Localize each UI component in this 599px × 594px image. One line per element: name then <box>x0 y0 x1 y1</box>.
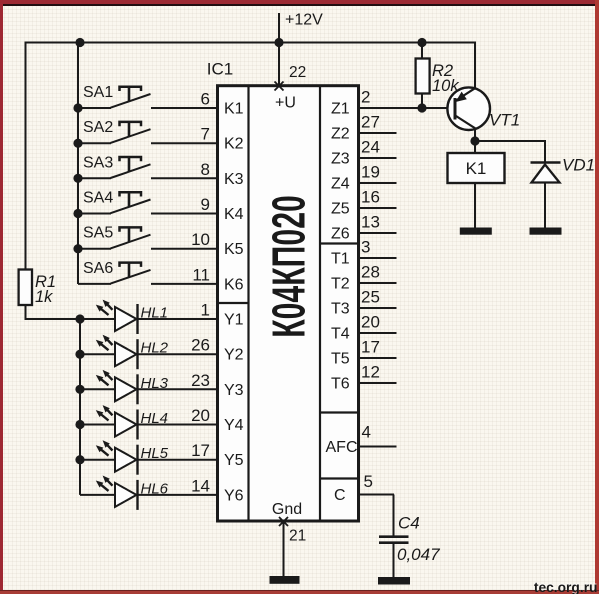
LED bus wire <box>79 319 81 495</box>
ground symbol under C4 <box>378 577 410 585</box>
svg-text:8: 8 <box>201 160 210 179</box>
svg-text:T6: T6 <box>331 376 350 393</box>
svg-text:C4: C4 <box>398 514 420 533</box>
pin 21 Gnd pin <box>272 501 306 576</box>
svg-text:HL6: HL6 <box>141 480 169 497</box>
LED HL5 <box>75 440 217 474</box>
IC pin Z2 / pin 27 <box>331 113 397 143</box>
svg-text:6: 6 <box>201 90 210 109</box>
svg-text:Y5: Y5 <box>224 452 244 469</box>
switch SA1 <box>73 84 217 113</box>
junction VT1 collector node <box>470 136 479 145</box>
IC pin T1 / pin 3 <box>331 238 397 268</box>
IC pin AFC / pin 4 <box>326 423 397 457</box>
switch bus wire <box>77 43 79 285</box>
IC pin T4 / pin 20 <box>331 313 397 343</box>
junction +12V on bus <box>274 38 283 47</box>
svg-text:HL4: HL4 <box>141 410 169 427</box>
junction switch bus on top bus <box>75 38 84 47</box>
svg-text:Y3: Y3 <box>224 382 244 399</box>
IC pin T5 / pin 17 <box>331 338 397 368</box>
svg-text:VT1: VT1 <box>489 111 520 130</box>
svg-text:HL1: HL1 <box>141 305 169 322</box>
svg-text:27: 27 <box>361 113 380 132</box>
svg-text:Z3: Z3 <box>331 151 350 168</box>
svg-text:13: 13 <box>361 213 380 232</box>
svg-text:Z4: Z4 <box>331 176 350 193</box>
svg-text:12: 12 <box>361 363 380 382</box>
svg-text:26: 26 <box>191 336 210 355</box>
svg-text:3: 3 <box>361 238 370 257</box>
diode VD1 <box>531 156 596 228</box>
svg-text:HL5: HL5 <box>141 445 169 462</box>
svg-text:VD1: VD1 <box>562 156 595 175</box>
LED HL1 <box>75 300 217 334</box>
svg-text:0,047: 0,047 <box>397 545 440 564</box>
pin 22 +U power pin <box>275 43 307 112</box>
IC pin Z1 / pin 2 wire to VT1 base <box>331 88 454 118</box>
junction R2 top on bus <box>417 38 426 47</box>
wire +12V top bus <box>26 42 477 44</box>
IC1 chip body К04КП020 <box>218 86 359 521</box>
IC pin T6 / pin 12 <box>331 363 397 393</box>
LED HL2 <box>75 335 217 369</box>
svg-text:7: 7 <box>201 125 210 144</box>
svg-text:tec.org.ru: tec.org.ru <box>534 580 598 594</box>
junction R2 bottom on base wire <box>417 103 426 112</box>
switch SA5 <box>73 225 217 254</box>
IC1 label <box>207 60 233 79</box>
IC pin C / pin 5 <box>334 472 394 504</box>
svg-text:IC1: IC1 <box>207 60 233 79</box>
svg-text:HL2: HL2 <box>141 340 169 357</box>
IC pin T2 / pin 28 <box>331 263 397 293</box>
ground symbol under IC1 <box>270 576 300 584</box>
ground symbol under K1 <box>460 228 492 235</box>
watermark tec.org.ru <box>534 580 598 594</box>
wire collector node to VD1 <box>475 140 545 162</box>
switch SA4 <box>73 190 217 219</box>
svg-text:1k: 1k <box>35 288 53 306</box>
IC pin Z6 / pin 13 <box>331 213 397 243</box>
wire bus corner down to VT1 emitter <box>474 42 476 88</box>
relay K1 <box>448 141 505 228</box>
svg-text:20: 20 <box>191 406 210 425</box>
switch SA6 <box>78 260 218 285</box>
svg-text:Z6: Z6 <box>331 226 350 243</box>
wire pin 5 to C4 <box>393 495 395 536</box>
svg-text:K4: K4 <box>224 206 244 223</box>
svg-text:T2: T2 <box>331 276 350 293</box>
svg-text:22: 22 <box>289 64 306 81</box>
svg-text:K1: K1 <box>224 101 244 118</box>
IC pin Z3 / pin 24 <box>331 138 397 168</box>
svg-text:T5: T5 <box>331 351 350 368</box>
svg-text:Z2: Z2 <box>331 126 350 143</box>
svg-text:SA2: SA2 <box>83 119 113 136</box>
svg-text:Y2: Y2 <box>224 347 244 364</box>
svg-text:17: 17 <box>191 441 210 460</box>
+12V supply terminal <box>279 12 323 43</box>
svg-text:SA6: SA6 <box>83 260 113 277</box>
LED HL6 <box>80 476 218 510</box>
svg-text:19: 19 <box>361 163 380 182</box>
svg-text:Y1: Y1 <box>224 312 244 329</box>
svg-text:K5: K5 <box>224 241 244 258</box>
svg-text:К04КП020: К04КП020 <box>264 195 315 338</box>
svg-text:+U: +U <box>275 95 296 112</box>
svg-text:T1: T1 <box>331 251 350 268</box>
svg-text:11: 11 <box>192 265 210 284</box>
IC pin Z5 / pin 16 <box>331 188 397 218</box>
svg-text:4: 4 <box>362 423 371 442</box>
ground symbol under VD1 <box>530 228 562 235</box>
svg-text:K2: K2 <box>224 136 244 153</box>
transistor VT1 <box>447 87 520 141</box>
svg-text:Z5: Z5 <box>331 201 350 218</box>
switch SA3 <box>73 154 217 183</box>
svg-text:24: 24 <box>361 138 380 157</box>
svg-text:C: C <box>334 487 346 504</box>
svg-text:K6: K6 <box>224 276 244 293</box>
svg-text:SA5: SA5 <box>83 225 113 242</box>
svg-text:K3: K3 <box>224 171 244 188</box>
LED HL3 <box>75 370 217 404</box>
IC pin Z4 / pin 19 <box>331 163 397 193</box>
IC pin labels K1-K6 <box>224 101 244 294</box>
svg-text:+12V: +12V <box>285 12 323 29</box>
svg-text:16: 16 <box>361 188 380 207</box>
wire from bus down to R1 <box>25 42 27 270</box>
svg-text:SA4: SA4 <box>83 190 113 207</box>
resistor R1 <box>19 270 56 307</box>
svg-text:10: 10 <box>191 230 210 249</box>
svg-text:T3: T3 <box>331 301 350 318</box>
svg-text:HL3: HL3 <box>141 375 169 392</box>
IC pin T3 / pin 25 <box>331 288 397 318</box>
resistor R2 <box>416 43 460 109</box>
switch SA2 <box>73 119 217 148</box>
svg-text:Gnd: Gnd <box>272 501 302 518</box>
svg-text:Y6: Y6 <box>224 487 244 504</box>
svg-text:Y4: Y4 <box>224 417 244 434</box>
capacitor C4 <box>379 514 440 578</box>
svg-text:2: 2 <box>361 88 370 107</box>
svg-text:21: 21 <box>289 528 306 545</box>
svg-text:28: 28 <box>361 263 380 282</box>
wire R1 to LED bus <box>25 305 81 319</box>
svg-text:20: 20 <box>361 313 380 332</box>
svg-text:14: 14 <box>191 476 210 495</box>
svg-text:T4: T4 <box>331 326 350 343</box>
IC pin labels Y1-Y6 <box>224 312 244 505</box>
svg-text:AFC: AFC <box>326 439 358 456</box>
svg-text:25: 25 <box>361 288 380 307</box>
svg-text:9: 9 <box>201 195 210 214</box>
svg-text:1: 1 <box>201 301 210 320</box>
svg-text:17: 17 <box>361 338 380 357</box>
LED HL4 <box>75 405 217 439</box>
svg-text:K1: K1 <box>466 159 487 178</box>
svg-text:SA3: SA3 <box>83 154 113 171</box>
svg-text:23: 23 <box>191 371 210 390</box>
svg-text:Z1: Z1 <box>331 101 350 118</box>
svg-text:5: 5 <box>364 472 373 491</box>
svg-text:SA1: SA1 <box>83 84 113 101</box>
